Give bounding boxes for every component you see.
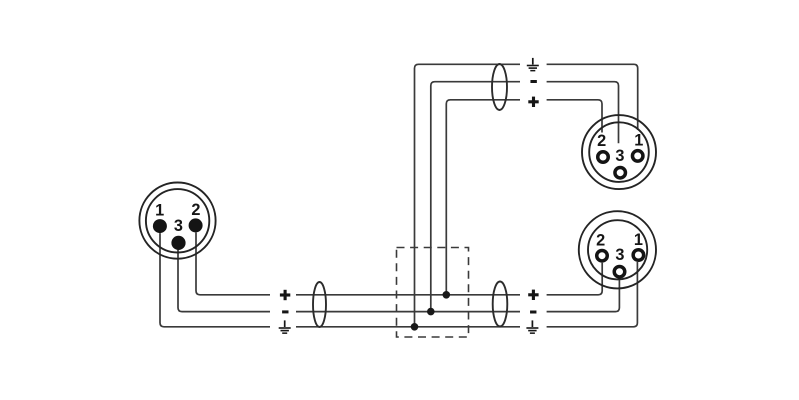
ground symbol (top)	[527, 58, 539, 72]
cable sheath ellipse bottom-right	[493, 282, 508, 327]
ground symbol (bottom left)	[279, 320, 291, 334]
wire shield gnd : male pin1 down and right to bottom-right female pin1	[160, 233, 637, 327]
svg-text:3: 3	[615, 147, 624, 165]
wire riser + : junction node up and right to top-right female pin2	[446, 100, 602, 295]
svg-text:1: 1	[634, 231, 643, 249]
junction dot node gnd	[411, 323, 419, 331]
J1 pin 3	[171, 236, 185, 250]
junction dot node -	[427, 308, 435, 316]
cable sheath ellipse bottom-left	[313, 282, 326, 327]
J3 pin 3	[614, 266, 625, 277]
svg-text:3: 3	[615, 246, 624, 264]
svg-text:2: 2	[596, 232, 605, 250]
male XLR connector J1 body	[139, 183, 215, 259]
female XLR connector J2 body (top right)	[582, 115, 656, 189]
value label + (top)	[528, 97, 538, 107]
svg-text:3: 3	[174, 217, 183, 235]
wire cold - : male pin3 down and right to bottom-right female pin3	[178, 250, 619, 312]
J3 pin 2	[597, 250, 608, 261]
cable sheath ellipse top	[492, 64, 507, 110]
wire riser gnd : junction node up and right to top-right female pin1	[415, 64, 638, 327]
female XLR connector J3 body (bottom right)	[579, 211, 656, 288]
svg-text:1: 1	[155, 202, 164, 220]
value label - (top)	[530, 80, 536, 83]
ground symbol (bottom right)	[526, 320, 538, 334]
value label - (bottom right)	[530, 311, 536, 314]
J2 pin 3	[615, 167, 626, 178]
value label - (bottom left)	[282, 310, 288, 313]
J1 pin 1	[153, 219, 167, 233]
splice junction dashed box	[397, 248, 469, 338]
J2 pin 2	[598, 152, 609, 163]
wire hot + : male pin2 down and right to bottom-right female pin2	[196, 232, 602, 294]
svg-text:2: 2	[191, 201, 200, 219]
J3 pin 1	[633, 250, 644, 261]
junction dot node +	[443, 291, 451, 299]
value label + (bottom left)	[280, 290, 290, 300]
wire riser - : junction node up and right to top-right female pin3	[431, 82, 619, 312]
J2 pin 1	[632, 151, 643, 162]
J1 pin 2	[189, 218, 203, 232]
value label + (bottom right)	[528, 290, 538, 300]
svg-text:1: 1	[634, 131, 643, 149]
svg-text:2: 2	[597, 132, 606, 150]
